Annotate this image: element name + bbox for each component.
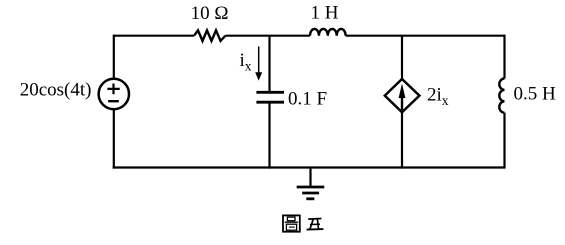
capacitor C1 plates <box>256 92 284 102</box>
resistor R1 10 ohm <box>194 30 225 41</box>
svg-text:1 H: 1 H <box>311 3 339 24</box>
arrow inside diamond <box>401 97 403 110</box>
capacitor branch lower wire <box>268 102 270 168</box>
wire top-left segment <box>114 35 194 37</box>
wire top-right segment <box>346 35 505 37</box>
inductor L2 0.5H <box>499 79 504 113</box>
left rail upper wire <box>113 35 115 78</box>
caption figure five (drawn glyphs) <box>283 215 323 231</box>
plus sign <box>107 84 119 95</box>
capacitor branch upper wire <box>268 36 270 92</box>
left rail lower wire <box>113 109 115 168</box>
minus sign <box>108 100 119 102</box>
svg-text:0.1 F: 0.1 F <box>288 88 327 109</box>
svg-text:10 Ω: 10 Ω <box>191 3 229 24</box>
svg-text:20cos(4t): 20cos(4t) <box>20 79 92 100</box>
inductor L1 1H <box>310 29 346 36</box>
voltage source V1 circle <box>99 79 129 109</box>
dependent current source diamond <box>385 79 420 112</box>
right rail lower wire <box>503 113 505 169</box>
current arrow ix <box>258 46 260 73</box>
dependent source branch upper wire <box>401 36 403 79</box>
right rail upper wire <box>503 35 505 79</box>
wire top-middle segment <box>225 35 310 37</box>
wire bottom <box>113 166 505 168</box>
dependent source branch lower wire <box>401 112 403 168</box>
ground <box>309 168 311 188</box>
glyph five <box>308 218 321 221</box>
glyph tu (enclosure) <box>283 215 300 231</box>
svg-text:0.5 H: 0.5 H <box>514 84 557 105</box>
